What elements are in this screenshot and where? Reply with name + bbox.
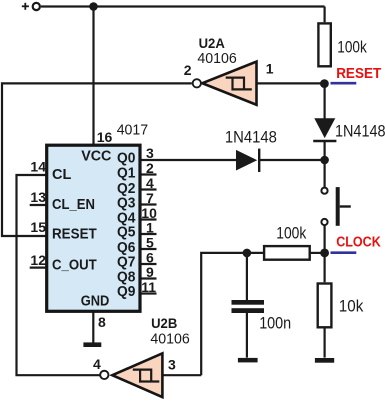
- svg-text:5: 5: [146, 234, 154, 250]
- resistor R1 100k: [318, 23, 330, 66]
- wire C_OUT stub pin 12: [30, 267, 47, 269]
- diode D2 1N4148 horizontal: [236, 149, 259, 172]
- svg-text:1: 1: [266, 61, 274, 77]
- svg-text:14: 14: [30, 159, 46, 175]
- svg-text:9: 9: [146, 264, 154, 280]
- wire top rail: [41, 5, 325, 7]
- wire Q8 stub: [140, 277, 157, 279]
- node junction top rail: [89, 2, 98, 11]
- svg-text:Q2: Q2: [117, 181, 135, 197]
- svg-text:2: 2: [146, 160, 154, 176]
- svg-text:2: 2: [184, 62, 192, 78]
- wire Q3 stub: [140, 203, 157, 205]
- wire VCC drop: [92, 7, 94, 146]
- svg-text:Q5: Q5: [117, 225, 135, 241]
- wire Q5 stub: [140, 233, 157, 235]
- svg-text:1N4148: 1N4148: [335, 123, 385, 141]
- svg-text:C_OUT: C_OUT: [52, 257, 97, 273]
- wire S1 to clock node: [324, 226, 326, 254]
- svg-text:8: 8: [98, 314, 106, 330]
- resistor R2 100k horizontal: [264, 246, 310, 260]
- svg-text:Q1: Q1: [117, 166, 135, 182]
- svg-text:Q9: Q9: [117, 284, 135, 300]
- svg-text:1: 1: [146, 219, 154, 235]
- svg-text:100n: 100n: [259, 315, 291, 333]
- svg-text:16: 16: [97, 129, 113, 145]
- ground IC: [83, 342, 101, 347]
- wire top rail drop to R1: [324, 7, 326, 23]
- svg-text:Q7: Q7: [117, 255, 135, 271]
- wire node A to C1: [246, 253, 248, 300]
- op-amp U2A inverter: [193, 62, 257, 105]
- svg-text:10k: 10k: [339, 298, 364, 316]
- supply terminal +: [22, 3, 40, 10]
- svg-text:U2A: U2A: [199, 35, 225, 51]
- svg-text:100k: 100k: [337, 39, 367, 57]
- svg-text:GND: GND: [81, 293, 110, 309]
- svg-text:3: 3: [168, 357, 176, 373]
- wire U2A output to reset pin: [2, 83, 192, 236]
- ground R3: [315, 358, 334, 363]
- wire U2A input: [257, 82, 325, 84]
- svg-text:RESET: RESET: [52, 227, 97, 243]
- wire Q6 stub: [140, 248, 157, 250]
- wire reset node to D1: [324, 83, 326, 118]
- svg-text:13: 13: [30, 189, 46, 205]
- pushbutton S1: [321, 187, 350, 226]
- resistor R3 10k: [318, 284, 332, 328]
- wire R2 to clock node: [310, 252, 325, 254]
- svg-text:4: 4: [93, 356, 101, 372]
- wire D1 to node B: [324, 141, 326, 187]
- diode D1 1N4148 vertical: [313, 118, 336, 141]
- svg-text:4: 4: [146, 175, 154, 191]
- svg-text:40106: 40106: [150, 331, 189, 348]
- svg-text:1N4148: 1N4148: [225, 129, 277, 147]
- wire Q2 stub: [140, 188, 157, 190]
- node CLOCK: [320, 249, 329, 258]
- node A junction: [243, 249, 252, 258]
- svg-text:15: 15: [30, 219, 46, 235]
- wire Q7 stub: [140, 263, 157, 265]
- svg-text:100k: 100k: [276, 224, 307, 242]
- svg-text:11: 11: [141, 279, 156, 295]
- IC U1 4017 body: [47, 145, 140, 311]
- op-amp U2B inverter: [100, 353, 162, 397]
- svg-text:VCC: VCC: [81, 148, 112, 164]
- wire Q9 stub: [140, 292, 157, 294]
- svg-text:3: 3: [146, 145, 154, 161]
- capacitor C1 100n: [232, 300, 265, 313]
- svg-text:Q3: Q3: [117, 196, 135, 212]
- wire node A to R2: [201, 253, 263, 375]
- svg-text:CL: CL: [52, 167, 71, 183]
- svg-text:U2B: U2B: [151, 315, 177, 331]
- wire U2B input: [162, 374, 201, 376]
- net link RESET: [331, 82, 357, 85]
- node RESET: [320, 79, 329, 88]
- svg-text:RESET: RESET: [336, 66, 381, 82]
- svg-text:40106: 40106: [197, 50, 236, 67]
- wire U2B output to CL pin: [17, 175, 101, 375]
- wire Q4 stub: [140, 218, 157, 220]
- svg-text:Q6: Q6: [117, 240, 135, 256]
- wire C1 to ground: [246, 313, 248, 358]
- svg-text:Q0: Q0: [117, 151, 135, 167]
- svg-text:4017: 4017: [117, 121, 149, 138]
- svg-text:CL_EN: CL_EN: [52, 197, 95, 213]
- wire Q0 to D2: [140, 159, 237, 161]
- wire R3 to ground: [324, 329, 326, 358]
- node B junction: [320, 156, 329, 165]
- wire CL_EN stub pin 13: [30, 204, 47, 206]
- wire clock node to R3: [324, 253, 326, 282]
- wire Q1 stub: [140, 173, 157, 175]
- svg-text:CLOCK: CLOCK: [336, 235, 381, 251]
- wire D2 to node B: [259, 159, 324, 161]
- svg-text:7: 7: [146, 190, 154, 206]
- wire GND pin 8: [92, 311, 94, 343]
- svg-text:Q8: Q8: [117, 269, 135, 285]
- net link CLOCK: [331, 251, 357, 254]
- ground C1: [238, 358, 258, 363]
- svg-text:12: 12: [30, 252, 46, 268]
